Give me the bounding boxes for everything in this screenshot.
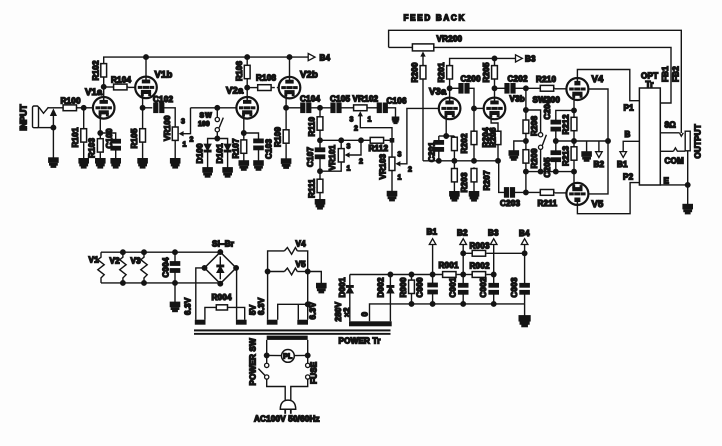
wire C202 to R210	[515, 87, 539, 89]
potentiometer VR101	[328, 140, 363, 172]
AC plug	[280, 400, 295, 414]
resistor R100	[61, 97, 81, 111]
wire feedback outer FB2 line	[389, 30, 682, 133]
svg-text:V1a: V1a	[85, 87, 103, 98]
svg-text:FB1: FB1	[661, 66, 670, 82]
jack tip arrow	[50, 108, 57, 116]
wire V3a plate to C200	[450, 87, 460, 89]
wire R101 to ground	[83, 143, 85, 159]
svg-text:SW: SW	[200, 113, 213, 120]
resistor R108	[256, 74, 276, 91]
arrow B1 supply	[427, 228, 438, 245]
heater V4	[284, 240, 306, 255]
resistor R002	[470, 262, 490, 278]
switch SW100	[198, 106, 223, 132]
wire heater rail bottom	[101, 282, 220, 284]
capacitor C001	[449, 277, 468, 297]
wire screen supply line	[556, 140, 608, 142]
wire B1 column	[432, 245, 434, 284]
wire switch to plug	[267, 379, 286, 400]
resistor R001	[439, 261, 459, 277]
resistor R000	[399, 275, 414, 298]
arrow B1 feed	[617, 152, 628, 169]
svg-text:C107: C107	[306, 147, 315, 167]
node E junction	[685, 183, 690, 188]
wire R109 to ground	[285, 144, 287, 159]
wire cathode node line	[439, 135, 455, 137]
node V2b cathode signal	[284, 106, 289, 111]
node plate V1a	[101, 85, 106, 90]
diode D101	[215, 143, 231, 163]
triode V3b	[484, 95, 525, 120]
svg-text:V1b: V1b	[155, 70, 173, 81]
capacitor C102	[153, 95, 173, 113]
wire D101 to ground	[227, 152, 229, 168]
svg-text:Tr: Tr	[646, 80, 655, 89]
wire cathode to C103	[244, 133, 259, 139]
wire R201 to B3 rail	[450, 58, 516, 64]
wire V1b cathode	[142, 97, 144, 128]
transformer POWER Tr core	[194, 329, 391, 334]
wire C106 to ground stub	[387, 108, 395, 117]
wire C103 to ground	[258, 150, 260, 161]
svg-text:C106: C106	[387, 96, 407, 105]
wire jack to E line	[687, 151, 689, 185]
wire C107 bottom	[319, 159, 321, 179]
node V3a plate	[447, 86, 452, 91]
svg-text:3: 3	[350, 117, 354, 124]
node C201 on cathode line	[437, 159, 442, 164]
svg-text:C201: C201	[427, 142, 436, 162]
output jack	[685, 124, 702, 158]
wire R104 to V1b grid	[128, 86, 135, 88]
wire C002 bottom	[493, 294, 495, 304]
svg-text:R210: R210	[536, 75, 556, 84]
svg-text:R102: R102	[92, 60, 101, 80]
resistor R111	[308, 178, 323, 198]
wire SW100 to diodes	[208, 132, 218, 144]
wire R208 branch down	[525, 88, 527, 119]
capacitor C003	[510, 277, 529, 297]
capacitor C106	[377, 96, 407, 112]
wire D001 top	[349, 275, 351, 286]
node SW200 branch	[524, 108, 529, 113]
node V2a cathode	[242, 131, 247, 136]
ground R207	[469, 192, 478, 201]
wire heater ground stub	[308, 272, 322, 284]
diode D100	[195, 143, 211, 163]
wire R200 to cathode line	[422, 80, 424, 161]
wire D100 to ground	[207, 152, 209, 168]
wire VR200 left terminal	[389, 46, 413, 48]
wire R203 to ground	[453, 183, 455, 192]
wire R106 to B4	[246, 57, 248, 64]
wire ground stub R209	[514, 141, 526, 151]
node V1b plate on B4	[144, 55, 149, 60]
svg-text:VR101: VR101	[328, 144, 337, 170]
wire VR100 bottom to ground	[174, 141, 176, 158]
switch SW200	[533, 96, 561, 150]
svg-text:3: 3	[347, 144, 351, 151]
svg-text:R203: R203	[460, 172, 469, 192]
svg-text:×2: ×2	[343, 307, 352, 317]
svg-text:E: E	[664, 177, 670, 186]
wire VR200 right to FB1	[434, 47, 671, 103]
resistor R105	[130, 127, 145, 148]
svg-text:FB2: FB2	[672, 66, 681, 82]
wire C000 bottom	[432, 294, 434, 304]
wire B3 column	[493, 245, 495, 284]
wire R210 to V4 grid	[555, 88, 567, 90]
resistor R106	[235, 61, 250, 81]
wire C201 bottom	[438, 151, 440, 161]
node strap junction	[305, 302, 310, 307]
diode D001	[338, 277, 353, 297]
output tube V4	[566, 74, 604, 100]
node R209 line	[524, 169, 529, 174]
node V3b grid	[472, 106, 477, 111]
wire R100 to V1a grid	[77, 107, 93, 109]
wire R201 to V3a plate	[449, 80, 451, 98]
svg-text:R201: R201	[437, 62, 446, 82]
wire R112 to node square	[385, 139, 392, 141]
svg-text:6.3V: 6.3V	[184, 297, 193, 315]
capacitor C105	[330, 94, 350, 112]
svg-text:R001: R001	[439, 261, 459, 270]
node B2 rail	[461, 272, 466, 277]
svg-text:R004: R004	[212, 293, 232, 302]
wire R202 bottom	[453, 152, 455, 168]
svg-text:R100: R100	[61, 97, 81, 106]
resistor R213	[561, 146, 577, 166]
node SW200 on line	[538, 169, 543, 174]
svg-text:C105: C105	[330, 94, 350, 103]
svg-text:B2: B2	[457, 229, 468, 238]
svg-text:V2b: V2b	[300, 70, 318, 81]
pilot lamp PL	[264, 350, 310, 363]
wire V3b grid lead	[474, 107, 484, 109]
svg-text:R002: R002	[470, 262, 490, 271]
node C204 C205	[554, 139, 559, 144]
svg-text:3: 3	[398, 152, 402, 159]
node V5 right	[297, 269, 310, 274]
ground output	[683, 205, 692, 214]
svg-text:C200: C200	[461, 74, 481, 83]
wire B terminal	[623, 141, 639, 152]
wire V1b plate to B4	[145, 57, 147, 77]
arrow B2 supply	[457, 229, 468, 245]
node R206 on cathode line	[496, 159, 501, 164]
potentiometer VR100	[163, 115, 194, 149]
resistor R103	[88, 138, 104, 159]
node R204 on cathode line	[472, 159, 477, 164]
svg-text:D002: D002	[376, 277, 385, 297]
wire R105 to ground	[142, 143, 144, 159]
node C107 R111	[318, 169, 323, 174]
diode D002	[376, 277, 393, 297]
wire HT rail	[350, 274, 442, 276]
svg-text:6.3V: 6.3V	[257, 297, 266, 315]
svg-text:PL: PL	[283, 353, 293, 360]
svg-text:R106: R106	[235, 61, 244, 81]
node grid V1a	[81, 106, 86, 111]
wire C100 to ground	[115, 150, 117, 159]
node VR101 wiper	[359, 138, 364, 143]
svg-text:C002: C002	[479, 277, 488, 297]
wire jack sleeve to ground	[38, 127, 54, 129]
ground R103	[96, 159, 105, 168]
svg-text:B4: B4	[519, 229, 530, 238]
svg-text:VR103: VR103	[379, 153, 388, 179]
wire 0V center tap	[370, 304, 525, 321]
ground R208 R209 node	[509, 151, 518, 160]
capacitor C100	[105, 128, 120, 150]
wire R110 top lead	[319, 108, 321, 116]
svg-text:VR102: VR102	[353, 94, 379, 103]
wire V3a cathode	[445, 119, 447, 137]
arrow B2 feed	[594, 152, 605, 169]
switch POWER SW	[249, 338, 269, 386]
svg-text:VR100: VR100	[163, 115, 172, 141]
svg-text:COM: COM	[665, 157, 685, 166]
svg-text:C102: C102	[153, 95, 173, 104]
svg-text:R208: R208	[530, 116, 539, 136]
svg-text:R112: R112	[369, 144, 389, 153]
wire B2 column	[462, 245, 464, 284]
svg-text:2: 2	[359, 159, 363, 166]
wire to D101	[217, 139, 227, 145]
wire VR103 wiper to V3a grid	[400, 108, 439, 163]
svg-text:B4: B4	[320, 53, 331, 62]
svg-text:V2: V2	[110, 257, 121, 266]
svg-text:VR200: VR200	[437, 35, 463, 44]
wire R110 to node line	[319, 131, 321, 140]
resistor R003	[470, 242, 490, 257]
svg-text:3: 3	[181, 119, 185, 126]
wire R208 to node	[525, 134, 527, 150]
wire R212 bottom	[573, 132, 575, 146]
transformer OPT Tr	[639, 72, 660, 186]
svg-text:1: 1	[183, 142, 187, 149]
wire R004 right lead	[228, 307, 245, 319]
wire E to ground	[687, 185, 689, 205]
input jack J1	[19, 104, 49, 131]
svg-text:R003: R003	[470, 242, 490, 251]
capacitor C107	[306, 147, 325, 167]
resistor R101	[71, 127, 86, 147]
resistor R202	[452, 133, 470, 153]
svg-text:R213: R213	[561, 146, 570, 166]
arrow B3 supply	[488, 229, 499, 245]
svg-text:V5: V5	[592, 199, 605, 210]
node R205 on B3	[492, 56, 497, 61]
wire V2b cathode down	[285, 97, 287, 129]
wire R205 to B3	[494, 58, 496, 64]
ground C100	[111, 159, 120, 168]
svg-text:2: 2	[354, 126, 358, 133]
wire V2a cathode	[243, 117, 245, 139]
svg-text:R107: R107	[231, 138, 240, 158]
wire primary left	[266, 340, 268, 363]
ground D100	[203, 168, 212, 177]
node R000 rail	[409, 272, 414, 277]
svg-text:V3a: V3a	[429, 87, 447, 98]
winding pad 1	[195, 320, 206, 325]
wire R104 leads	[104, 86, 113, 88]
wire R108 to V2b grid dashed	[272, 87, 283, 89]
triode V3a	[429, 87, 460, 120]
resistor R208	[523, 116, 539, 136]
winding pad 280V	[349, 321, 392, 326]
ground C103	[254, 161, 263, 170]
potentiometer VR200	[412, 35, 462, 57]
wire R108 left	[247, 87, 257, 89]
svg-text:B2: B2	[594, 160, 605, 169]
svg-text:V1: V1	[89, 256, 100, 265]
wire COM tap	[660, 150, 673, 152]
wire 5V strap	[278, 304, 308, 319]
node C203 R211 junction	[524, 190, 529, 195]
node square junction	[390, 138, 395, 143]
wire C105 to VR102	[341, 107, 353, 109]
svg-text:FUSE: FUSE	[310, 361, 319, 384]
wire node line y140	[320, 139, 362, 141]
svg-text:C004: C004	[162, 257, 171, 277]
capacitor C205	[543, 151, 561, 178]
wire C004 ground stub	[174, 283, 176, 302]
wire V4 plate to OPT P1	[577, 70, 639, 101]
resistor R200	[411, 62, 426, 82]
potentiometer VR102	[350, 94, 379, 132]
resistor R110	[308, 116, 323, 137]
ground heater circuit	[170, 302, 179, 311]
svg-text:R209: R209	[530, 148, 539, 168]
wire C200 to V3b grid	[469, 88, 474, 122]
wire R003 leads	[463, 252, 471, 254]
wire R002 to B3	[487, 274, 494, 276]
svg-text:V4: V4	[296, 240, 307, 249]
resistor R205	[482, 62, 497, 82]
label 280V x2	[334, 301, 352, 321]
wire 8ohm tap	[660, 132, 679, 134]
wire V4 heater right	[297, 251, 307, 320]
wire R209 bottom	[525, 164, 527, 192]
winding pad 4	[297, 320, 308, 325]
wire D001 bottom to winding	[349, 293, 351, 322]
wire R004 left lead	[205, 307, 216, 319]
resistor R209	[523, 148, 539, 168]
wire VR102 wiper to node	[360, 116, 392, 138]
wire R000 bottom	[411, 295, 413, 304]
wire V3b cathode to R206	[491, 119, 498, 130]
svg-text:AC100V 50/60Hz: AC100V 50/60Hz	[254, 415, 320, 424]
node R110 top	[318, 106, 323, 111]
winding pad 3	[267, 320, 278, 325]
wire bridge right AC	[235, 268, 238, 320]
wire cathode to C104	[286, 107, 301, 109]
node V2b plate on B4	[287, 55, 292, 60]
ground VR100	[171, 159, 180, 168]
capacitor C201	[427, 136, 443, 162]
heater V5	[284, 260, 306, 275]
ground R101	[79, 159, 88, 168]
wire C204 bottom	[555, 131, 557, 151]
svg-text:D100: D100	[195, 143, 204, 163]
svg-text:P2: P2	[623, 173, 634, 182]
wire VR102 to C106	[368, 107, 377, 109]
resistor R201	[437, 62, 452, 82]
wire R206 bottom	[497, 146, 499, 161]
node C205 on line	[554, 169, 559, 174]
wire primary right	[307, 340, 309, 363]
wire 0V to chassis ground	[524, 304, 526, 316]
ground R107	[239, 161, 248, 170]
wire R101 lead	[83, 108, 85, 128]
node B3 rail	[491, 272, 496, 277]
resistor R212	[561, 114, 577, 134]
heater V2	[110, 250, 127, 285]
ground heater 6.3V	[317, 284, 326, 293]
triode V2a	[226, 86, 258, 119]
wire V2b plate to B4	[289, 57, 291, 77]
svg-text:C205: C205	[543, 157, 552, 177]
ground VR103	[387, 192, 396, 201]
wire C205 bottom	[555, 161, 557, 171]
svg-text:2: 2	[408, 167, 412, 174]
svg-text:B1: B1	[427, 228, 438, 237]
winding pad 2	[236, 320, 247, 325]
arrow B4 supply	[519, 229, 530, 245]
node D002 rail	[388, 272, 393, 277]
svg-text:R105: R105	[130, 128, 139, 148]
svg-text:C104: C104	[300, 94, 320, 103]
svg-text:FEED BACK: FEED BACK	[404, 14, 467, 23]
wire R103 to ground	[99, 153, 101, 159]
wire V1a cathode	[99, 119, 101, 138]
node R212 R213	[572, 139, 577, 144]
wire R102 to B4 rail	[104, 57, 309, 62]
wire bridge left AC	[196, 268, 205, 320]
heater V3	[131, 250, 148, 285]
svg-text:B: B	[625, 130, 631, 139]
wire VR101 bottom	[320, 163, 341, 171]
wire V2a plate	[246, 79, 248, 97]
svg-text:Si–Br: Si–Br	[212, 240, 235, 249]
resistor R210	[536, 75, 556, 91]
ground R105	[138, 159, 147, 168]
resistor R104	[111, 75, 131, 90]
resistor R102	[92, 60, 107, 80]
capacitor C104	[300, 94, 320, 112]
potentiometer VR103	[379, 142, 412, 181]
svg-text:C203: C203	[500, 199, 520, 208]
svg-text:R202: R202	[460, 133, 469, 153]
node V2a plate	[245, 85, 250, 90]
capacitor C204	[543, 99, 561, 131]
node screen line	[606, 139, 611, 144]
wire E terminal	[660, 184, 687, 186]
contact jack tip	[680, 133, 684, 136]
node V5 left	[265, 269, 284, 274]
wire V1a plate to R102	[103, 78, 105, 97]
wire R112 leads	[362, 139, 369, 141]
svg-text:8Ω: 8Ω	[665, 121, 677, 130]
svg-text:B3: B3	[525, 55, 536, 64]
svg-text:R109: R109	[274, 127, 283, 147]
resistor R207	[471, 167, 491, 190]
wire D002 top	[389, 275, 391, 286]
svg-text:C001: C001	[449, 277, 458, 297]
